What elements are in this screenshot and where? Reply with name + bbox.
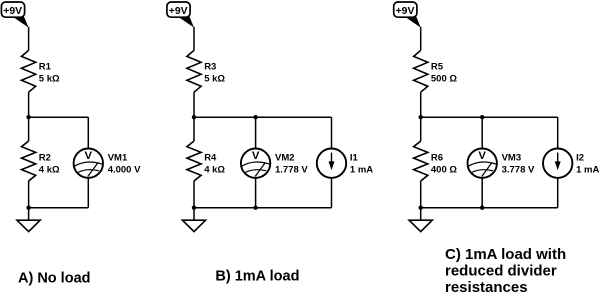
svg-text:V: V xyxy=(252,150,260,162)
svg-text:R1: R1 xyxy=(39,61,52,72)
svg-text:4.000 V: 4.000 V xyxy=(108,164,141,175)
svg-text:4 kΩ: 4 kΩ xyxy=(204,164,225,175)
svg-text:1 mA: 1 mA xyxy=(576,164,599,175)
svg-text:reduced divider: reduced divider xyxy=(445,262,557,279)
svg-text:B) 1mA load: B) 1mA load xyxy=(215,268,299,284)
svg-text:1 mA: 1 mA xyxy=(350,164,373,175)
svg-text:I1: I1 xyxy=(350,153,359,164)
svg-text:resistances: resistances xyxy=(445,279,528,294)
svg-text:C) 1mA load with: C) 1mA load with xyxy=(445,246,566,263)
svg-text:VM3: VM3 xyxy=(502,153,522,164)
svg-text:5 kΩ: 5 kΩ xyxy=(204,73,225,84)
svg-text:V: V xyxy=(85,150,93,162)
svg-text:1.778 V: 1.778 V xyxy=(275,164,308,175)
svg-text:4 kΩ: 4 kΩ xyxy=(39,164,60,175)
svg-text:R5: R5 xyxy=(431,61,444,72)
svg-text:A) No load: A) No load xyxy=(18,270,91,286)
svg-text:V: V xyxy=(478,150,486,162)
svg-text:I2: I2 xyxy=(576,153,584,164)
svg-text:3.778 V: 3.778 V xyxy=(502,164,535,175)
svg-text:500 Ω: 500 Ω xyxy=(431,73,457,84)
svg-text:R2: R2 xyxy=(39,153,51,164)
svg-text:R4: R4 xyxy=(204,153,217,164)
svg-text:VM1: VM1 xyxy=(108,153,128,164)
svg-text:VM2: VM2 xyxy=(275,153,295,164)
svg-text:R3: R3 xyxy=(204,61,216,72)
svg-text:5 kΩ: 5 kΩ xyxy=(39,73,60,84)
svg-text:400 Ω: 400 Ω xyxy=(431,164,457,175)
svg-text:+9V: +9V xyxy=(3,6,22,17)
svg-text:R6: R6 xyxy=(431,153,443,164)
svg-text:+9V: +9V xyxy=(169,6,188,17)
svg-text:+9V: +9V xyxy=(396,6,415,17)
